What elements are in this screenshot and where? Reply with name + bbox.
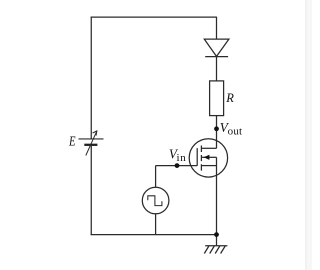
battery E short thick plate [84, 144, 97, 146]
svg-text:E: E [68, 133, 76, 149]
wire bottom horizontal [91, 234, 217, 236]
wire gate node to square source [155, 166, 157, 188]
diode D1 triangle [204, 39, 229, 56]
ground stem [216, 235, 218, 246]
ground bar [205, 245, 227, 247]
diode D1 cathode bar [205, 56, 228, 58]
mosfet Q1 bulk line [201, 156, 216, 158]
node Vout dot [214, 126, 219, 131]
mosfet Q1 drain horizontal [201, 147, 216, 149]
square-wave source V1 waveform glyph [148, 196, 162, 206]
wire square source to bottom wire [155, 214, 157, 235]
node Vin dot [175, 163, 180, 168]
wire diode to resistor [216, 57, 218, 81]
wire source to ground [216, 157, 218, 234]
square-wave source V1 circle [142, 187, 169, 214]
node ground junction dot [214, 232, 219, 237]
page edge shading [306, 0, 313, 270]
svg-text:R: R [225, 91, 234, 105]
mosfet Q1 bulk arrow head [204, 155, 210, 160]
wire resistor to drain [216, 116, 218, 149]
battery E long plate [79, 138, 104, 140]
wire right vertical top to diode [216, 17, 218, 39]
mosfet Q1 channel segments [200, 146, 202, 171]
wire top horizontal [91, 16, 217, 18]
ground hatch lines [204, 246, 225, 254]
label E [68, 133, 76, 149]
mosfet Q1 gate bar [196, 148, 198, 166]
mosfet Q1 source horizontal [201, 165, 216, 167]
wire left vertical upper [90, 17, 92, 139]
svg-text:out: out [228, 125, 243, 137]
svg-text:in: in [177, 152, 187, 164]
wire left vertical lower [90, 145, 92, 235]
resistor R box [210, 81, 224, 116]
mosfet Q1 gate lead wire [156, 165, 198, 167]
battery E variable arrow [86, 131, 97, 156]
mosfet Q1 envelope circle [189, 139, 227, 177]
